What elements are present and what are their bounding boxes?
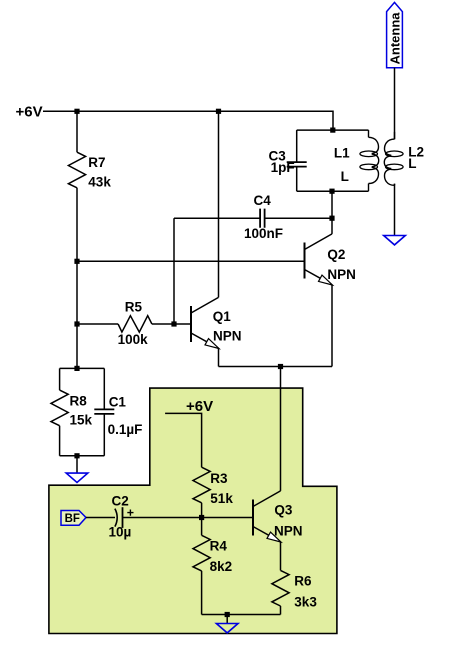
- inductor L1 loop 2: [360, 164, 378, 170]
- svg-text:NPN: NPN: [327, 267, 356, 282]
- transistor Q1 emitter: [191, 333, 219, 348]
- junction tank bottom / C4 branch: [329, 189, 334, 194]
- wire C1 bottom lead: [103, 414, 105, 456]
- port BF flag: [61, 511, 86, 526]
- inductor L1 arc 3: [369, 167, 379, 183]
- wire Q3 collector riser: [280, 367, 282, 491]
- wire C3 top lead: [296, 130, 298, 162]
- wire R3 bottom lead: [201, 503, 203, 518]
- wire R6 bottom lead: [280, 606, 282, 615]
- wire to ground audio stage: [226, 615, 228, 624]
- wire to ground below R8C1: [76, 456, 78, 473]
- wire C4 left lead: [174, 217, 260, 219]
- svg-text:100nF: 100nF: [244, 226, 283, 241]
- polarity + of C2: [127, 510, 133, 516]
- green annotation region: [49, 388, 337, 633]
- wire Q1 emitter down: [218, 348, 220, 366]
- ground under R8C1: [66, 473, 88, 482]
- resistor R3: [193, 467, 210, 503]
- svg-text:BF: BF: [65, 513, 80, 525]
- svg-text:15k: 15k: [70, 412, 93, 427]
- transistor Q3 emitter: [253, 527, 281, 542]
- wire R8 bottom lead: [59, 426, 61, 456]
- wire tank bottom to Q2 collector: [331, 191, 333, 234]
- svg-text:L1: L1: [334, 145, 350, 160]
- inductor L2 loop 1: [386, 151, 404, 157]
- junction emitter wire / Q3 collector riser: [278, 364, 283, 369]
- inductor L1 arc 4: [368, 184, 370, 192]
- inductor L2 arc 2: [384, 156, 391, 169]
- ground audio stage: [216, 624, 238, 633]
- wire +6V stub audio stage: [165, 413, 202, 467]
- svg-text:R6: R6: [294, 574, 312, 589]
- resistor R8: [51, 390, 68, 426]
- svg-text:C1: C1: [109, 395, 127, 410]
- junction R5 / C4 branch / Q1 base: [171, 321, 176, 326]
- junction left rail / Q2 base wire: [74, 259, 79, 264]
- svg-text:Q1: Q1: [213, 309, 232, 324]
- inductor L2 loop 2: [386, 164, 404, 170]
- wire R5 left lead: [77, 323, 118, 325]
- inductor L1 loop 1: [360, 151, 378, 157]
- svg-text:1pF: 1pF: [271, 160, 295, 175]
- ground under L2: [384, 236, 406, 245]
- svg-text:C2: C2: [112, 494, 129, 509]
- wire Q3 emitter to R6: [280, 542, 282, 571]
- svg-text:3k3: 3k3: [294, 595, 317, 610]
- inductor L2 arc 3: [385, 169, 395, 185]
- wire Q2 emitter down: [331, 285, 333, 367]
- wire R5 right lead to Q1 base: [152, 323, 191, 325]
- resistor R6: [272, 570, 289, 606]
- svg-text:100k: 100k: [118, 332, 149, 347]
- capacitor C4: [260, 209, 265, 228]
- wire R8C1 top bar: [60, 367, 105, 369]
- svg-text:Antenna: Antenna: [387, 12, 402, 65]
- svg-text:51k: 51k: [210, 491, 233, 506]
- transistor Q3 collector: [253, 491, 281, 507]
- wire C1 top lead: [103, 368, 105, 409]
- transistor Q3 emitter arrow: [267, 532, 281, 542]
- svg-text:10µ: 10µ: [109, 525, 132, 540]
- svg-text:NPN: NPN: [274, 524, 303, 539]
- transistor Q1 base bar: [190, 306, 192, 342]
- wire C4 right lead: [265, 217, 332, 219]
- capacitor C2 straight plate: [122, 507, 124, 528]
- resistor R7: [68, 152, 85, 188]
- inductor L1: [368, 130, 370, 137]
- capacitor C3: [287, 162, 307, 167]
- svg-text:C4: C4: [254, 193, 272, 208]
- wire R4 to R6 bottom: [202, 614, 281, 616]
- wire tank top: [297, 129, 369, 131]
- junction tank top / +6V: [330, 128, 335, 133]
- antenna flag: [387, 2, 403, 67]
- junction +6V rail / R7: [74, 109, 79, 114]
- svg-text:8k2: 8k2: [210, 559, 233, 574]
- svg-text:+6V: +6V: [186, 398, 213, 415]
- wire R4 bottom lead: [201, 571, 203, 615]
- transistor Q1 collector: [191, 297, 219, 313]
- svg-text:43k: 43k: [88, 175, 111, 190]
- wire Q3 base net: [202, 517, 253, 519]
- junction bottom wire / ground: [225, 612, 230, 617]
- wire R8 top lead: [59, 368, 61, 390]
- wire +6V supply rail: [43, 111, 333, 130]
- inductor L2: [394, 132, 396, 139]
- svg-text:+6V: +6V: [16, 104, 43, 121]
- resistor R5: [118, 316, 152, 332]
- wire C3 bottom lead: [296, 167, 298, 192]
- inductor L1 arc 1: [369, 137, 379, 153]
- transistor Q2 emitter arrow: [319, 275, 333, 285]
- wire antenna to L2: [394, 68, 396, 140]
- wire BF to C2: [86, 517, 115, 519]
- svg-text:R7: R7: [88, 155, 105, 170]
- junction R3 / R4 / C2 / Q3 base: [199, 515, 204, 520]
- inductor L2 arc 1: [385, 139, 395, 155]
- capacitor C2 curved plate: [115, 509, 117, 527]
- transistor Q2 base bar: [304, 243, 306, 279]
- svg-text:L: L: [341, 169, 349, 184]
- junction left rail / R8C1 top: [74, 366, 79, 371]
- wire Q2 base net: [77, 260, 305, 262]
- wire R8C1 bottom bar: [60, 455, 105, 457]
- resistor R4: [193, 535, 210, 571]
- wire tank bottom: [297, 190, 369, 192]
- junction left rail / R5: [74, 321, 79, 326]
- svg-text:L: L: [408, 156, 416, 171]
- transistor Q2 emitter: [305, 270, 333, 285]
- wire L2 to ground: [394, 184, 396, 236]
- wire left rail R7 to R8: [76, 188, 78, 369]
- svg-text:R3: R3: [210, 471, 228, 486]
- wire C4 left vertical: [173, 218, 175, 324]
- junction R8C1 bottom / ground: [74, 453, 79, 458]
- svg-text:0.1µF: 0.1µF: [108, 422, 143, 437]
- svg-text:R8: R8: [70, 394, 88, 409]
- wire R7 top lead: [76, 111, 78, 152]
- svg-text:NPN: NPN: [213, 328, 242, 343]
- junction +6V rail / Q1 collector: [216, 109, 221, 114]
- wire R4 top lead: [201, 518, 203, 536]
- wire Q1 emitter to Q2 emitter: [219, 366, 333, 368]
- transistor Q3 base bar: [252, 500, 254, 536]
- inductor L2 arc 4: [394, 184, 396, 186]
- svg-text:Q2: Q2: [327, 247, 345, 262]
- junction C4 / Q2 collector: [329, 216, 334, 221]
- svg-text:Q3: Q3: [274, 502, 293, 517]
- transistor Q1 emitter arrow: [205, 339, 219, 349]
- inductor L1 arc 2: [372, 154, 379, 167]
- svg-text:R5: R5: [125, 300, 143, 315]
- capacitor C1: [94, 409, 114, 414]
- wire C2 to base junction: [123, 517, 202, 519]
- wire +6V rail to Q1 collector: [218, 111, 220, 297]
- svg-text:R4: R4: [210, 539, 228, 554]
- transistor Q2 collector: [305, 234, 333, 250]
